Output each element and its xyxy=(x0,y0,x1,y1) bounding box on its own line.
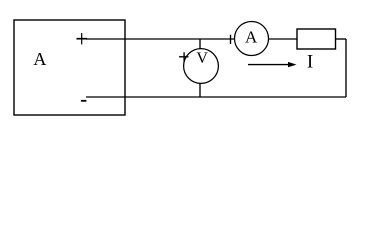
minus terminal of source xyxy=(81,100,87,102)
wire: voltmeter branch from top wire xyxy=(199,39,201,49)
wire: voltmeter bottom stub xyxy=(199,83,201,97)
plus terminal of source xyxy=(77,33,88,44)
svg-text:I: I xyxy=(307,52,313,73)
source box (cell A) xyxy=(14,20,125,115)
wire: top run from + to ammeter xyxy=(86,38,235,40)
svg-text:A: A xyxy=(33,49,46,69)
wire: ammeter to resistor xyxy=(269,38,298,40)
svg-text:V: V xyxy=(196,50,208,67)
ammeter A xyxy=(235,22,269,56)
voltmeter V xyxy=(184,49,219,84)
wire: resistor to right corner xyxy=(336,38,347,40)
plus sign at voltmeter xyxy=(179,52,189,61)
resistor R (load box) xyxy=(297,29,336,49)
current arrow xyxy=(248,62,297,67)
wire: right vertical xyxy=(345,39,347,97)
wire: bottom return run xyxy=(86,96,346,98)
plus sign at ammeter xyxy=(230,35,232,44)
svg-text:A: A xyxy=(245,28,258,47)
